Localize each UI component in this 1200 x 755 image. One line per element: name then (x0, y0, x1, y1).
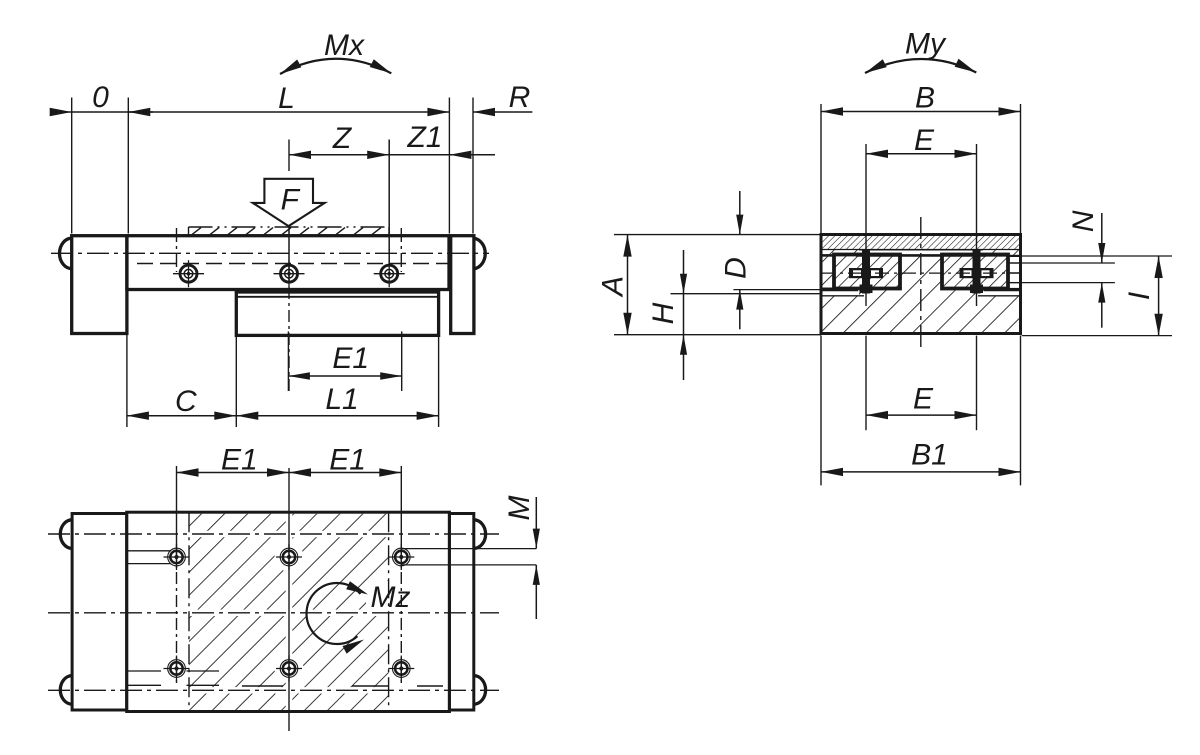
svg-text:E: E (914, 124, 935, 157)
svg-text:N: N (1067, 210, 1100, 232)
svg-text:F: F (281, 184, 301, 217)
svg-text:Z: Z (332, 122, 353, 155)
svg-text:E: E (913, 383, 934, 416)
svg-text:B: B (915, 82, 935, 115)
svg-text:R: R (509, 81, 531, 114)
svg-text:L1: L1 (325, 383, 358, 416)
svg-text:E1: E1 (329, 444, 366, 477)
svg-text:H: H (647, 302, 680, 324)
svg-text:A: A (597, 276, 630, 298)
svg-text:E1: E1 (221, 444, 258, 477)
svg-text:D: D (719, 257, 752, 279)
svg-text:Mz: Mz (371, 581, 411, 614)
svg-text:C: C (175, 385, 197, 418)
svg-text:L: L (278, 82, 295, 115)
svg-text:My: My (905, 28, 947, 61)
svg-text:Z1: Z1 (406, 121, 442, 154)
svg-text:M: M (503, 496, 536, 521)
svg-text:Mx: Mx (324, 29, 365, 62)
svg-text:B1: B1 (911, 439, 948, 472)
svg-text:E1: E1 (332, 342, 369, 375)
svg-text:I: I (1123, 292, 1156, 300)
svg-text:0: 0 (92, 81, 109, 114)
